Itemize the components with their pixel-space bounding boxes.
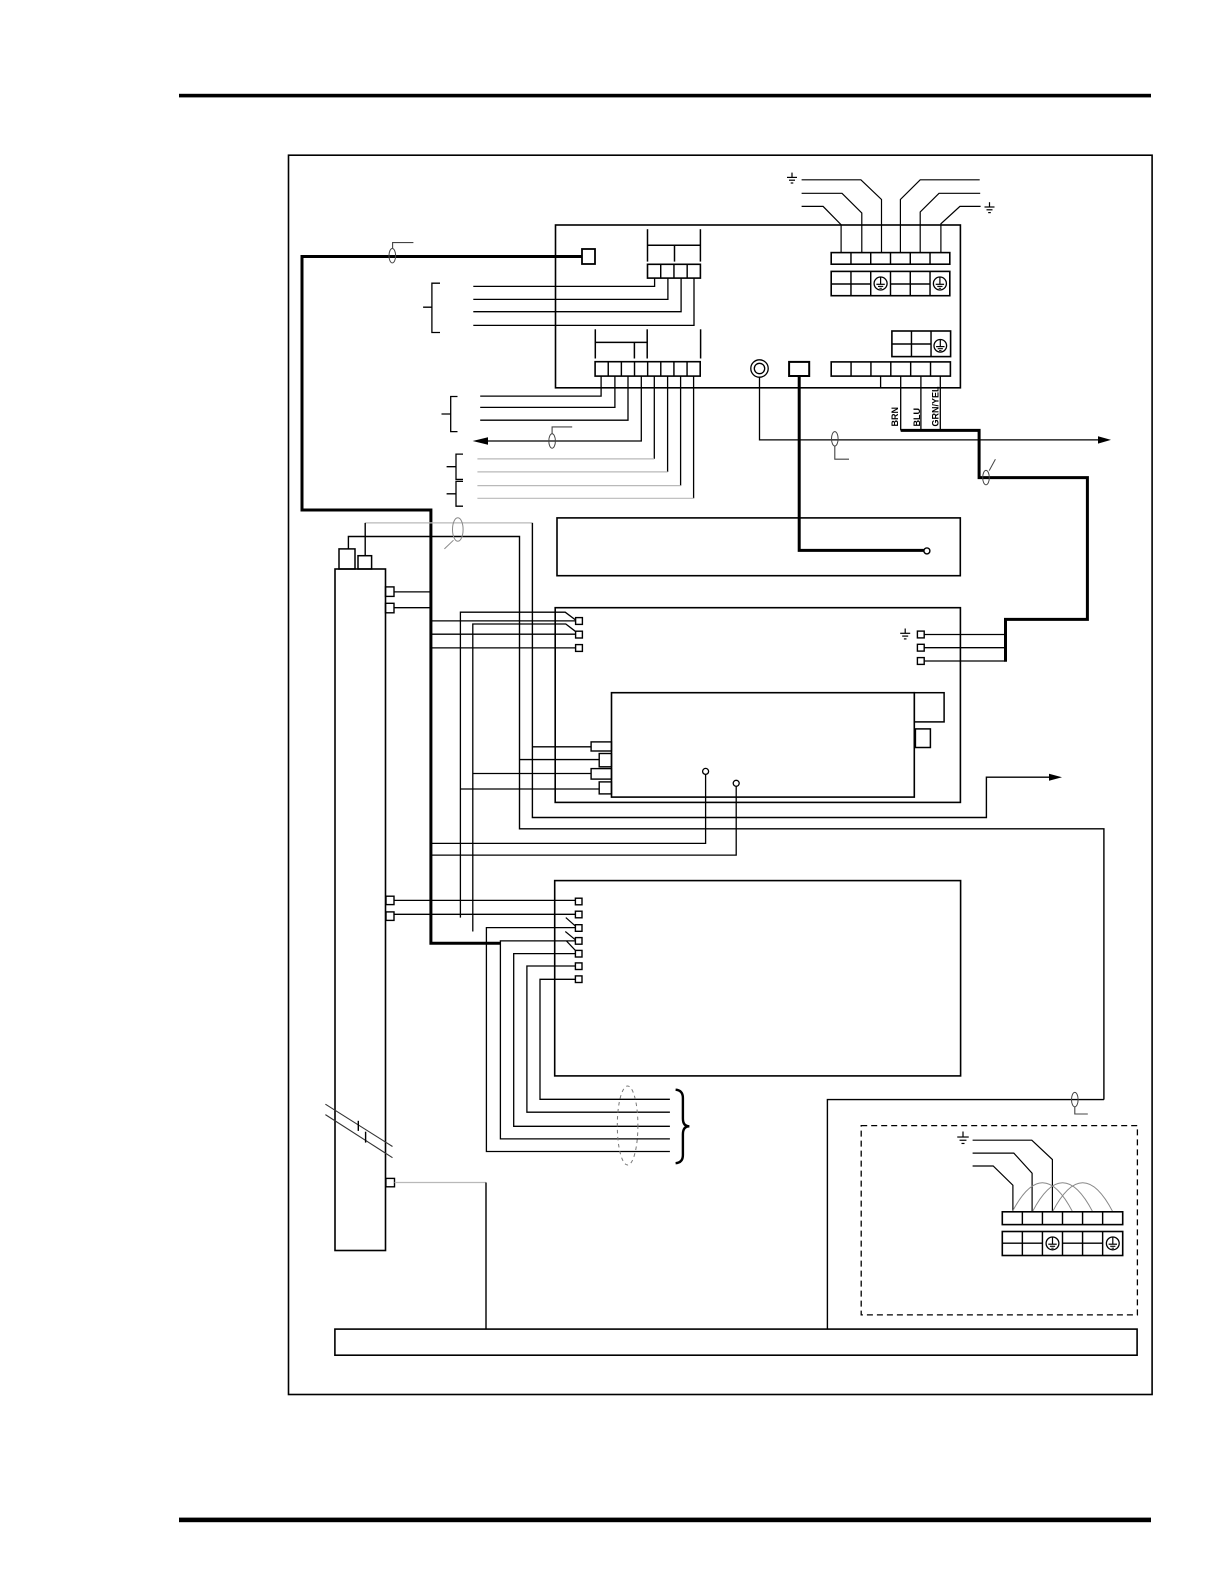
ground symbol mains lead L xyxy=(787,173,797,183)
junction wire 3 xyxy=(973,1166,1013,1212)
connector bracket pair upper xyxy=(447,454,463,479)
junction box dashed outline xyxy=(861,1126,1137,1315)
mains lead wire to TB1-2 xyxy=(802,193,862,252)
wire T1 tab2 to bus xyxy=(394,607,430,609)
T1 top tab A xyxy=(339,549,355,569)
wire bundle lead c xyxy=(514,954,670,1127)
U3 pin square 1 xyxy=(576,618,583,625)
wire net C tap to U3 tab1 xyxy=(532,746,591,748)
T1 right square 3 xyxy=(386,896,394,904)
connector J2 pin frame on U1 xyxy=(648,229,701,261)
U3 pin square 2 xyxy=(576,631,583,638)
wire J3-7 faded xyxy=(477,485,680,487)
connector bracket for J3 harness xyxy=(442,397,458,432)
disconnect symbol on lamp wire xyxy=(832,432,839,446)
T1 right square 5 xyxy=(386,1178,395,1186)
module U3 outline xyxy=(555,608,960,803)
page top rule xyxy=(179,94,1151,98)
wire net D lower run to chassis strip xyxy=(827,1100,1104,1330)
wire J3-6 vertical xyxy=(667,376,669,472)
svg-text:BRN: BRN xyxy=(890,407,900,427)
disconnect tab mark xyxy=(552,427,572,434)
ground symbol junction box xyxy=(957,1132,969,1144)
ground symbol in U3 xyxy=(900,629,910,639)
diagram outer border xyxy=(289,155,1153,1394)
protective earth symbol in TB1-3 xyxy=(874,277,887,290)
U4 pin square 1 xyxy=(575,898,582,905)
indicator lamp H1 xyxy=(751,360,768,377)
wire net C vertical xyxy=(532,523,1049,818)
svg-text:GRN/YEL: GRN/YEL xyxy=(930,386,940,427)
terminal block TB3 6-pole output row xyxy=(831,362,950,376)
chassis strip bar xyxy=(335,1329,1137,1355)
U4 pin square 7 xyxy=(575,976,582,983)
terminal block TB4 lower 6x2 block xyxy=(1002,1232,1122,1256)
mains lead wire to TB1-5 xyxy=(920,193,980,252)
disconnect symbol on net D xyxy=(1072,1092,1079,1106)
terminal block TB4 6-pole row xyxy=(1002,1212,1122,1225)
wire U3 tab4 feed xyxy=(460,788,599,790)
terminal block J3 8-pole xyxy=(595,362,700,376)
wire stub TB3-3 to board edge xyxy=(880,376,882,388)
junction wire 1 xyxy=(973,1140,1053,1212)
wire thick mains bus to heater xyxy=(901,430,1088,661)
wire main thick supply from X1 down-left bus xyxy=(302,257,582,944)
wire J3-2 to harness xyxy=(480,376,615,407)
wire J3-5 vertical xyxy=(653,376,655,459)
control board U1 outline xyxy=(556,225,961,388)
wire U3 tab3 feed xyxy=(473,773,591,775)
M1 left tab 3 xyxy=(591,769,611,780)
wire J3-7 vertical xyxy=(680,376,682,486)
wire J3-8 vertical xyxy=(693,376,695,498)
M1 left tab 1 xyxy=(591,742,611,751)
wire faded T1 to chassis strip xyxy=(395,1182,487,1184)
wire J2-4 to harness xyxy=(473,278,694,325)
connector bracket pair lower xyxy=(447,481,463,506)
U4 pin square 2 xyxy=(575,911,582,918)
M1 terminal circle 1 xyxy=(703,768,709,774)
wire bus tap to U3 pin3 xyxy=(431,647,576,649)
M1 left tab 2 xyxy=(599,754,611,767)
wire J3-8 faded xyxy=(477,497,693,499)
module U4 outline xyxy=(555,881,961,1076)
protective earth symbol in TB1-6 xyxy=(933,277,946,290)
wire BRN from TB3-4 xyxy=(900,376,902,430)
TB1 partition lines xyxy=(831,283,930,285)
U4 pin square 4 xyxy=(575,938,582,945)
cable bundle ellipse xyxy=(617,1086,638,1165)
wire J2-1 to harness xyxy=(473,278,654,286)
wire gray from door switch S1 tab xyxy=(365,522,532,524)
mains lead wire to TB1-1 xyxy=(802,206,842,252)
wire bundle lead b tick to pin5 xyxy=(566,941,575,951)
ground symbol mains lead PE xyxy=(985,202,995,212)
T1 right tab 1 xyxy=(386,587,395,597)
M1 left tab 4 xyxy=(599,782,611,794)
M1 right tab large xyxy=(914,693,944,722)
disconnect tab mark diagonal xyxy=(989,459,995,470)
wire thick from relay K1 into interlock box xyxy=(799,376,924,550)
mains lead wire to TB1-4 xyxy=(900,180,979,253)
wire sense 1 with pin tick xyxy=(460,612,575,917)
wire bus tap to U3 pin2 xyxy=(431,633,576,635)
break symbol on T1 xyxy=(325,1104,392,1158)
disconnect tab mark xyxy=(1075,1107,1088,1114)
disconnect symbol on J3-4 wire xyxy=(549,434,556,448)
jumper arc 1 xyxy=(1012,1183,1072,1212)
wire door switch stub xyxy=(364,523,366,556)
wire bundle lead d xyxy=(527,966,670,1112)
U4 pin square 5 xyxy=(575,950,582,957)
wire T1 tab1 to bus xyxy=(394,591,430,593)
wire U3 sq3 to bus xyxy=(924,660,1005,662)
U3 right square 2 xyxy=(917,644,924,651)
connector J3 pin frame on U1 xyxy=(595,329,700,358)
wire J3-1 to harness xyxy=(480,376,601,396)
wire sense2 tick into U4 pin4 xyxy=(565,932,575,940)
wire sense 2 with pin tick xyxy=(473,624,576,932)
wire T1 drop to chassis strip xyxy=(485,1183,487,1330)
U4 pin square 3 xyxy=(575,925,582,932)
TB2 partition line xyxy=(892,343,931,345)
cable bundle brace xyxy=(676,1090,690,1164)
wire T1 to U4 pin1 xyxy=(394,899,575,901)
protective earth symbol in TB2-3 xyxy=(934,340,947,353)
protective earth symbol in TB4-3 xyxy=(1046,1237,1059,1250)
connector X1 terminal square on U1 xyxy=(582,249,595,264)
protective earth symbol in TB4-6 xyxy=(1106,1237,1119,1250)
terminal block TB1 6-pole row xyxy=(831,253,950,265)
terminal block TB1 lower 6x2 block xyxy=(831,271,950,295)
terminal block J2 4-pole xyxy=(648,264,701,278)
page bottom rule xyxy=(179,1518,1151,1523)
T1 top tab B xyxy=(358,556,372,569)
M1 terminal circle 2 xyxy=(733,780,739,786)
wire U3 sq1 to bus xyxy=(924,634,1005,636)
terminal point circle xyxy=(924,548,930,554)
mains lead wire to TB1-3 xyxy=(802,180,882,253)
connector bracket for J2 harness xyxy=(423,283,440,332)
wire net D tap to U3 tab2 xyxy=(520,759,600,761)
arrowhead right xyxy=(1098,436,1111,443)
wire U3 sq2 to bus xyxy=(924,647,1005,649)
M1 right tab small xyxy=(915,729,930,748)
T1 right square 4 xyxy=(386,912,394,921)
wire bundle lead b xyxy=(500,941,670,1139)
heater stack T1 outline xyxy=(335,569,386,1251)
wire bundle lead a xyxy=(486,928,670,1152)
wire J3-5 faded xyxy=(477,458,654,460)
terminal block TB2 3x2 block xyxy=(892,331,951,357)
wire J3-4 signal out with arrow xyxy=(488,376,641,441)
harness loop tail xyxy=(444,540,453,549)
wire bundle lead e xyxy=(540,979,670,1099)
wire J2-3 to harness xyxy=(473,278,681,312)
U4 pin square 6 xyxy=(575,963,582,970)
wire M1 c2 to thick bus xyxy=(431,786,736,855)
jumper arc 2 xyxy=(1032,1183,1092,1212)
arrowhead left xyxy=(473,437,488,444)
harness loop ellipse xyxy=(453,518,464,541)
wire J3-3 to harness xyxy=(480,376,628,420)
disconnect tab mark xyxy=(393,243,414,248)
TB4 partition lines xyxy=(1002,1242,1102,1244)
wire J2-2 to harness xyxy=(473,278,668,299)
wire net D from S1 tab1 xyxy=(348,537,1104,1100)
wire GRN/YEL from TB3-6 xyxy=(939,376,941,430)
relay contact K1 box xyxy=(789,362,809,376)
mains lead wire to TB1-6 xyxy=(941,206,981,252)
U3 pin square 3 xyxy=(576,645,583,652)
wire lamp H1 to sensor line with arrow xyxy=(760,377,1099,440)
junction wire 2 xyxy=(973,1153,1033,1212)
wire BLU from TB3-5 xyxy=(920,376,922,430)
wire M1 c1 to thick bus xyxy=(431,774,706,843)
disconnect symbol on mains bus xyxy=(983,470,990,484)
disconnect symbol on supply wire xyxy=(389,249,396,263)
wire T1 to U4 pin2 xyxy=(394,913,575,915)
wire sense1 tick into U4 pin3 xyxy=(566,918,576,927)
arrowhead right net C xyxy=(1049,774,1062,781)
wire bus tap to U3 pin1 xyxy=(431,620,576,622)
U3 right square 3 xyxy=(917,658,924,665)
wire J3-6 faded xyxy=(477,471,667,473)
U3 right square 1 xyxy=(917,631,924,638)
jumper arc 3 xyxy=(1053,1183,1113,1212)
disconnect tab mark xyxy=(835,446,849,459)
interlock box U2 outline xyxy=(557,518,960,576)
pump motor M1 inner box xyxy=(612,693,915,797)
T1 right tab 2 xyxy=(386,603,395,613)
indicator lamp H1 inner ring xyxy=(754,363,764,373)
